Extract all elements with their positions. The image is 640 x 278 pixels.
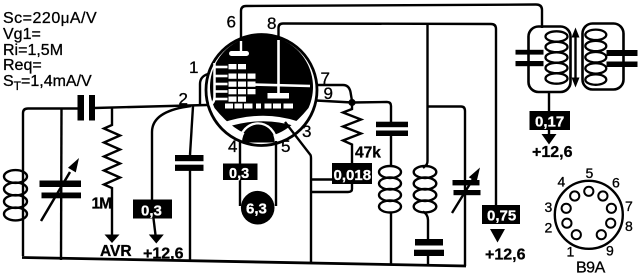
svg-text:1: 1 bbox=[189, 58, 198, 77]
svg-text:0,75: 0,75 bbox=[487, 208, 516, 225]
wire: coil to rail bbox=[390, 212, 392, 265]
capacitor box 0,17 bbox=[530, 111, 571, 130]
svg-text:47k: 47k bbox=[355, 145, 381, 162]
wire: anode to IF primary bbox=[352, 102, 391, 122]
wire: g1 branch to 0,3 box bbox=[152, 106, 191, 203]
svg-text:+12,6: +12,6 bbox=[532, 144, 573, 161]
pin7 white line inside bbox=[250, 85, 310, 87]
pin 9 wire bbox=[316, 101, 352, 103]
inductor L3 (IF secondary) bbox=[414, 166, 437, 213]
capacitor box 0,75 bbox=[482, 205, 520, 224]
svg-text:6,3: 6,3 bbox=[246, 201, 267, 218]
inductor L2 (IF primary) bbox=[379, 166, 401, 213]
pin 4 wire bbox=[239, 140, 241, 206]
wire: cap to rail bbox=[427, 256, 429, 266]
svg-text:8: 8 bbox=[625, 218, 633, 234]
svg-text:1M: 1M bbox=[92, 196, 112, 213]
wire: bottom rail bbox=[22, 258, 466, 267]
svg-text:9: 9 bbox=[606, 243, 614, 259]
wire: grid wire right of C1 bbox=[95, 105, 208, 108]
svg-text:5: 5 bbox=[281, 137, 290, 156]
svg-text:5: 5 bbox=[586, 165, 594, 181]
wire: cathode cap branch bbox=[190, 106, 193, 155]
svg-text:6: 6 bbox=[612, 175, 620, 191]
svg-text:B9A: B9A bbox=[576, 260, 606, 277]
capacitor C6 (T1 right) bbox=[607, 50, 638, 56]
pin 1 stub bbox=[200, 74, 208, 105]
capacitor C4 (bottom) bbox=[415, 239, 443, 246]
wire: variable cap branch bbox=[60, 108, 63, 260]
svg-text:4: 4 bbox=[228, 137, 237, 156]
svg-text:1: 1 bbox=[567, 244, 575, 260]
wire: coil to bottom cap bbox=[423, 212, 428, 241]
arrow +12,6 (0,75) bbox=[490, 229, 505, 243]
wire: B+ branch down bbox=[423, 24, 428, 168]
svg-text:3: 3 bbox=[545, 199, 553, 215]
variable capacitor CV1 bbox=[40, 181, 82, 188]
svg-text:9: 9 bbox=[324, 84, 333, 103]
wire: variable cap branch right bbox=[428, 107, 466, 267]
tube U1 envelope bbox=[206, 35, 317, 146]
wire: cap to coil bbox=[390, 136, 392, 167]
resistor R2 47k bbox=[343, 102, 361, 163]
svg-text:2: 2 bbox=[545, 220, 553, 236]
svg-text:7: 7 bbox=[625, 198, 633, 214]
wire: stub box left bbox=[312, 178, 332, 180]
pin6 white stub inside bbox=[240, 41, 242, 52]
svg-text:+12,6: +12,6 bbox=[143, 246, 184, 263]
svg-text:8: 8 bbox=[267, 14, 276, 33]
grid rows bbox=[214, 64, 294, 109]
bottom dash row bbox=[225, 104, 233, 109]
svg-text:2: 2 bbox=[179, 90, 188, 109]
inductor L4 (T1 left coil) bbox=[546, 31, 568, 83]
pin8 white line inside bbox=[277, 40, 280, 95]
cathode white arc bbox=[221, 118, 297, 126]
wire: T1 to 0,17 bbox=[548, 92, 550, 111]
anode white bar right bbox=[268, 93, 290, 99]
interior black bbox=[210, 35, 313, 137]
IF transformer T1 core boxes bbox=[529, 27, 571, 93]
wire: 0,018 to cathode bbox=[312, 184, 352, 192]
wire: pin 6 to top transformer bbox=[241, 5, 542, 41]
svg-text:6: 6 bbox=[227, 13, 236, 32]
arrow +12,6 (0,17) bbox=[548, 130, 550, 135]
inductor L1 (antenna coil) bbox=[4, 170, 27, 220]
svg-text:Vg1=: Vg1= bbox=[3, 26, 41, 43]
variable capacitor CV2 bbox=[453, 180, 480, 185]
pin 7 wire bbox=[316, 85, 353, 101]
pin 5 wire bbox=[275, 141, 277, 206]
grid bus white line inside left bbox=[210, 63, 215, 105]
svg-text:0,3: 0,3 bbox=[141, 203, 162, 220]
heater dome outline bbox=[240, 124, 277, 144]
heater voltage circle 6,3 bbox=[241, 191, 275, 225]
svg-text:0,018: 0,018 bbox=[334, 167, 372, 184]
svg-text:0,3: 0,3 bbox=[229, 166, 249, 182]
svg-text:4: 4 bbox=[558, 174, 566, 190]
B9A socket bbox=[545, 165, 634, 277]
capacitor C1 (grid coupling) bbox=[78, 95, 85, 121]
anode top bar bbox=[229, 51, 249, 56]
svg-text:Req=: Req= bbox=[3, 57, 42, 74]
envelope circle bbox=[206, 35, 317, 146]
capacitor box 0,018 bbox=[332, 163, 372, 184]
svg-text:Sc=220μA/V: Sc=220μA/V bbox=[3, 10, 97, 27]
inductor L5 (T1 right coil) bbox=[585, 30, 606, 85]
wire: left rail top bbox=[23, 109, 78, 257]
resistor R1 1M bbox=[104, 108, 120, 235]
parameter text block bbox=[3, 10, 97, 93]
heater dome bbox=[242, 124, 275, 142]
tuning arrow T1 bbox=[574, 35, 576, 80]
arrow +12,6 (left) bbox=[154, 219, 156, 236]
capacitor box 0,3 (left) bbox=[133, 200, 172, 219]
svg-text:AVR: AVR bbox=[100, 243, 132, 260]
svg-text:0,17: 0,17 bbox=[535, 114, 564, 131]
arrow AVR bbox=[105, 235, 120, 244]
svg-text:3: 3 bbox=[302, 122, 311, 141]
capacitor C5 (T1 left) bbox=[516, 50, 544, 55]
wire: pin 8 screen rail bbox=[279, 24, 497, 207]
capacitor C2 (cathode) bbox=[175, 155, 204, 161]
junction node bbox=[348, 99, 355, 106]
pin 3 wire bbox=[285, 122, 311, 262]
capacitor box 0,3 (heater, right) bbox=[223, 164, 258, 181]
capacitor C3 (IF primary) bbox=[376, 122, 408, 128]
svg-text:+12,6: +12,6 bbox=[485, 247, 526, 264]
